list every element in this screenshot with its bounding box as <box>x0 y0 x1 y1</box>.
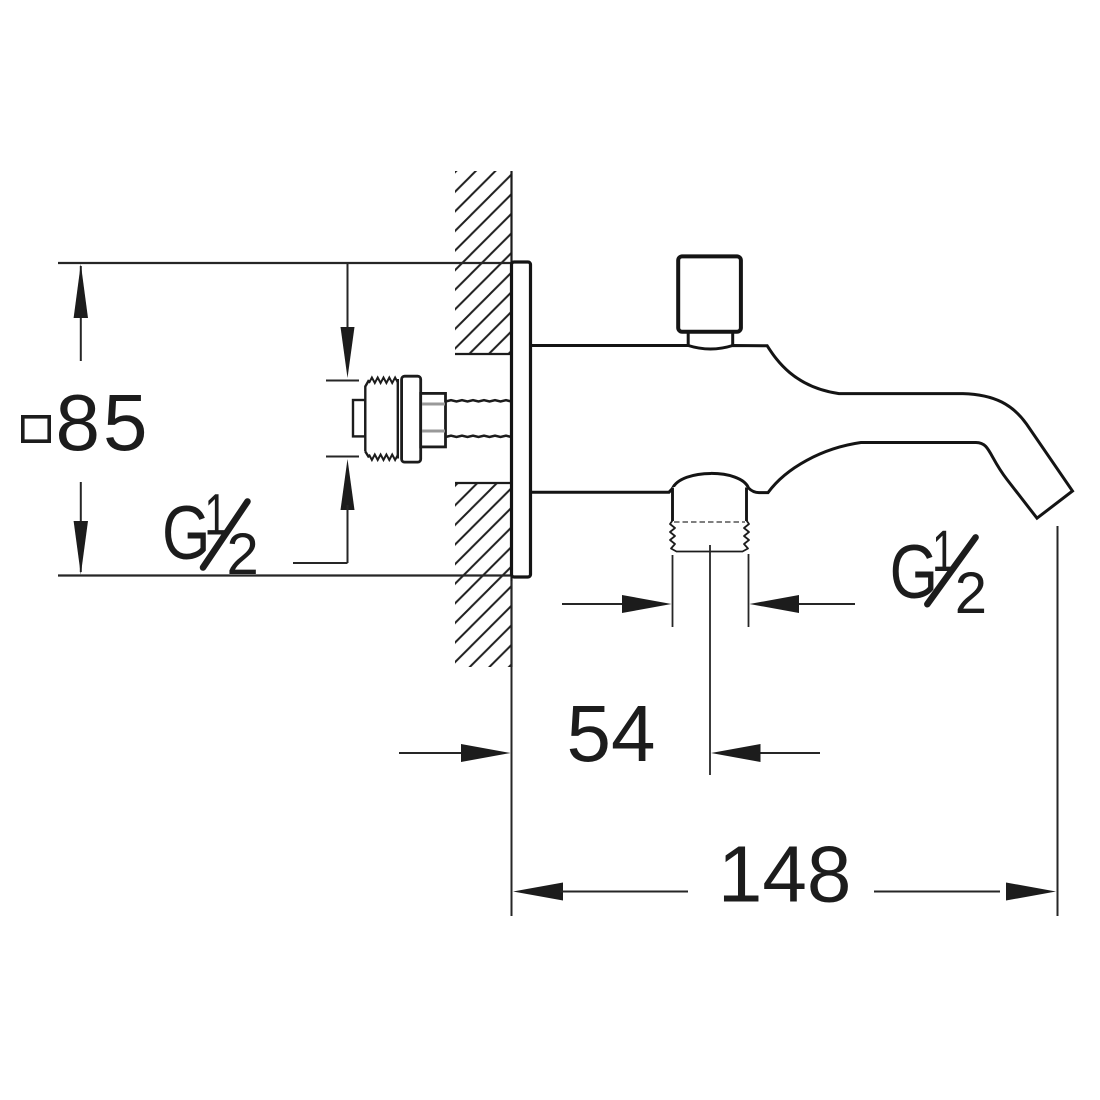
svg-text:2: 2 <box>955 561 987 626</box>
svg-text:2: 2 <box>227 522 259 587</box>
svg-text:54: 54 <box>567 689 656 778</box>
svg-text:148: 148 <box>718 830 851 919</box>
